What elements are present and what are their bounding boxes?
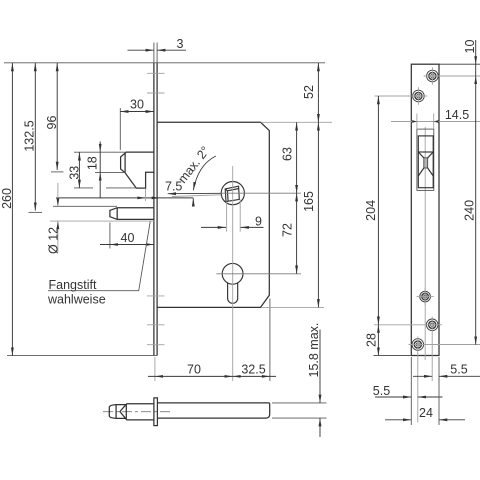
svg-text:165: 165	[302, 191, 316, 212]
svg-text:Ø 12: Ø 12	[47, 227, 61, 254]
svg-text:28: 28	[365, 333, 379, 347]
svg-text:32.5: 32.5	[241, 362, 265, 376]
svg-text:15.8 max.: 15.8 max.	[307, 323, 321, 378]
svg-text:10: 10	[463, 40, 477, 54]
svg-text:Fangstift: Fangstift	[49, 278, 97, 292]
svg-text:33: 33	[68, 166, 82, 180]
svg-text:24: 24	[419, 406, 433, 420]
svg-text:132.5: 132.5	[23, 120, 37, 151]
svg-text:14.5: 14.5	[445, 108, 469, 122]
svg-text:204: 204	[364, 200, 378, 221]
svg-text:96: 96	[45, 116, 59, 130]
svg-text:wahlweise: wahlweise	[47, 293, 106, 307]
svg-text:30: 30	[130, 98, 144, 112]
svg-text:40: 40	[121, 231, 135, 245]
svg-text:70: 70	[187, 362, 201, 376]
svg-text:260: 260	[0, 188, 14, 209]
svg-text:72: 72	[280, 223, 294, 237]
svg-text:9: 9	[255, 215, 262, 229]
svg-text:63: 63	[280, 147, 294, 161]
svg-text:52: 52	[302, 85, 316, 99]
svg-text:240: 240	[462, 200, 476, 221]
svg-text:5.5: 5.5	[450, 363, 467, 377]
svg-text:3: 3	[177, 37, 184, 51]
svg-text:18: 18	[86, 156, 100, 170]
svg-text:5.5: 5.5	[373, 384, 390, 398]
